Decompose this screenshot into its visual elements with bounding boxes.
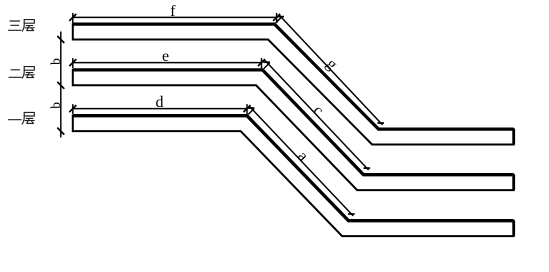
svg-text:f: f [170,3,176,20]
svg-text:b: b [48,58,63,65]
svg-text:b: b [48,102,63,109]
svg-text:d: d [156,94,164,111]
svg-text:e: e [162,48,169,65]
